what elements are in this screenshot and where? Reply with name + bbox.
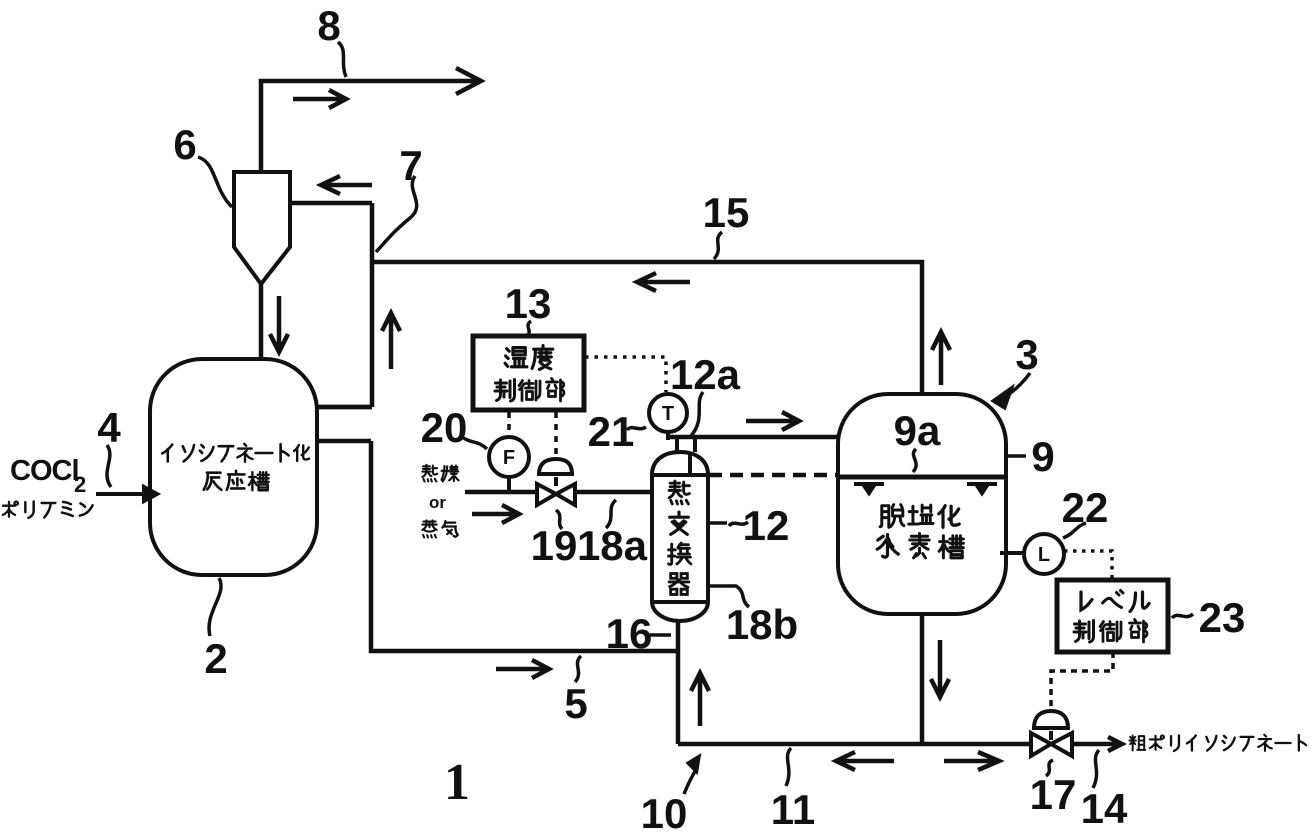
box 13 text 温度 / 制御部 <box>495 346 564 401</box>
svg-text:9a: 9a <box>894 407 941 454</box>
wire: pipe from T sensor to vessel 3 top inlet <box>668 435 838 440</box>
wire: drop pipe from cyclone to reactor <box>259 284 264 362</box>
heating medium text 熱媒 or 蒸気 <box>422 465 458 538</box>
dashed signal: box 13 to F sensor <box>507 412 511 436</box>
wire: heat exchanger bottom stub down to line 11 <box>676 621 681 744</box>
sensor T circle 21 <box>649 394 687 440</box>
wire: reactor liquid outlet <box>317 439 371 444</box>
svg-text:16: 16 <box>606 610 653 657</box>
leader 2 <box>209 578 221 636</box>
vessel 3 dehydrochlorination tank <box>838 394 1006 614</box>
svg-text:17: 17 <box>1030 771 1077 818</box>
level surface mark right <box>967 484 997 493</box>
cyclone 6 <box>234 172 290 284</box>
input arrow 4 COCl2/polyamine feed <box>96 487 157 501</box>
leader 23 tilde <box>1172 614 1193 618</box>
arrowhead line 8 <box>456 68 481 94</box>
feed text ポリアミン <box>3 502 93 518</box>
leader 12 tilde <box>708 522 748 526</box>
wire: vessel 3 bottom outlet <box>920 614 925 744</box>
leader 22 <box>1063 523 1086 538</box>
text: COCl2 feed label <box>10 455 86 497</box>
control valve 17 <box>1031 711 1072 756</box>
flow arrow right on heating pipe <box>472 505 519 523</box>
hx text 熱交換器 vertical <box>669 481 691 594</box>
wire: line 5 down and right <box>371 441 677 651</box>
flow arrow down cyclone drop <box>270 296 288 352</box>
leader 5 <box>575 656 581 682</box>
svg-text:9: 9 <box>1031 433 1054 480</box>
svg-text:2: 2 <box>204 635 227 682</box>
svg-text:L: L <box>1038 544 1050 566</box>
leader 9a <box>913 449 916 472</box>
reactor vessel 2 <box>150 359 317 575</box>
level surface mark left <box>854 484 884 493</box>
instrument letters <box>503 403 1050 566</box>
sensor F circle 20 <box>489 437 529 492</box>
leader 17 <box>1046 760 1053 776</box>
leader 7 <box>376 176 417 252</box>
wire: pipe 7 horizontal from cyclone <box>290 201 372 206</box>
svg-text:10: 10 <box>641 790 688 835</box>
leader 18a <box>606 500 616 528</box>
leader 4 <box>107 445 111 487</box>
leader 13 <box>528 321 531 335</box>
leader 3 arrow <box>1004 373 1030 398</box>
wire: reactor vapor outlet to pipe 7 <box>317 405 372 410</box>
leader 19 <box>556 510 562 529</box>
wire: valve 17 outlet with arrow to product <box>1072 737 1122 751</box>
dotted signal: L sensor to box 23 <box>1064 551 1112 578</box>
wire: line 8 overhead vapor out <box>261 81 478 172</box>
svg-text:22: 22 <box>1062 484 1109 531</box>
leader 9 line <box>1006 454 1026 458</box>
svg-text:F: F <box>503 447 515 469</box>
svg-text:T: T <box>662 403 674 425</box>
dashed signal: box 13 to valve 19 <box>554 412 558 458</box>
control valve 19 <box>537 459 575 505</box>
flow arrow right under line 5 <box>496 660 549 678</box>
hx top neck <box>677 439 695 452</box>
svg-text:12a: 12a <box>670 351 741 398</box>
leader 8 <box>338 42 346 77</box>
svg-text:2: 2 <box>74 472 86 497</box>
flow arrow under line 8 <box>293 90 346 108</box>
svg-text:11: 11 <box>771 786 815 833</box>
flow arrow right into vessel 3 <box>746 412 799 430</box>
leader 11 <box>786 748 791 786</box>
product text 粗ポリイソシアネート <box>1129 735 1306 751</box>
dashed signal: box 23 to valve 17 <box>1051 652 1113 708</box>
flow arrow up in pipe 7 <box>382 313 400 369</box>
svg-text:19: 19 <box>531 522 578 569</box>
svg-text:20: 20 <box>421 404 468 451</box>
flow arrow up on riser of vessel 3 <box>932 332 950 385</box>
wire: heating pipe valve 19 to heat exchanger <box>575 490 652 495</box>
leader squiggles <box>107 42 1193 788</box>
wire: line 11 bottom header <box>678 742 1031 747</box>
control box 23 level controller <box>1057 580 1168 652</box>
svg-text:21: 21 <box>588 408 635 455</box>
svg-text:8: 8 <box>317 2 340 49</box>
flow arrow left on pipe 7 <box>321 176 372 194</box>
leader 10 arrow <box>684 768 697 794</box>
flow arrow left on line 11 <box>836 752 894 770</box>
flow arrow up beside hx stub <box>691 673 709 726</box>
flow arrow right on line 11 <box>944 752 999 770</box>
leader 16 <box>646 633 671 637</box>
svg-text:5: 5 <box>564 680 587 727</box>
leader 20 <box>461 436 487 449</box>
heat exchanger 12 column <box>652 439 708 621</box>
svg-text:3: 3 <box>1015 331 1038 378</box>
leader 3 filled arrowhead <box>992 386 1013 409</box>
box 23 text レベル / 制御部 <box>1074 591 1149 643</box>
svg-text:7: 7 <box>399 142 422 189</box>
wire: line 15 long return <box>372 262 922 394</box>
svg-text:COCl: COCl <box>10 455 79 487</box>
leader 14 <box>1093 750 1099 788</box>
leader 6 <box>198 157 232 207</box>
leader 12a <box>691 392 703 436</box>
svg-text:or: or <box>429 493 446 512</box>
svg-text:13: 13 <box>505 280 552 327</box>
flow arrow down vessel 3 outlet <box>931 640 949 697</box>
svg-text:23: 23 <box>1199 594 1246 641</box>
flow arrow left on line 15 <box>637 273 690 291</box>
svg-text:4: 4 <box>97 404 121 451</box>
svg-text:18b: 18b <box>726 601 798 648</box>
svg-text:15: 15 <box>703 189 750 236</box>
sensor L circle 22 <box>1000 534 1064 574</box>
svg-text:1: 1 <box>444 754 470 811</box>
reactor text イソシアネート化 <box>162 444 309 462</box>
wire: pipe 7 vertical riser <box>319 203 372 407</box>
control box 13 temperature controller <box>473 336 584 410</box>
leader 18b <box>708 586 749 607</box>
reactor text 反応槽 <box>204 471 269 490</box>
svg-text:6: 6 <box>173 121 196 168</box>
vessel 3 text 脱塩化 / 水素槽 <box>877 505 963 558</box>
dashed line: hx to vessel 3 level <box>709 473 837 478</box>
liquid level line 9 in vessel 3 <box>839 475 1005 480</box>
svg-text:18a: 18a <box>577 522 648 569</box>
svg-text:14: 14 <box>1081 785 1128 832</box>
leader 15 <box>714 232 722 259</box>
dotted signal: box 13 to T sensor <box>585 357 666 392</box>
wire: heating medium pipe into valve 19 <box>465 490 537 495</box>
svg-text:12: 12 <box>743 502 790 549</box>
leader 21 tilde <box>627 427 646 430</box>
